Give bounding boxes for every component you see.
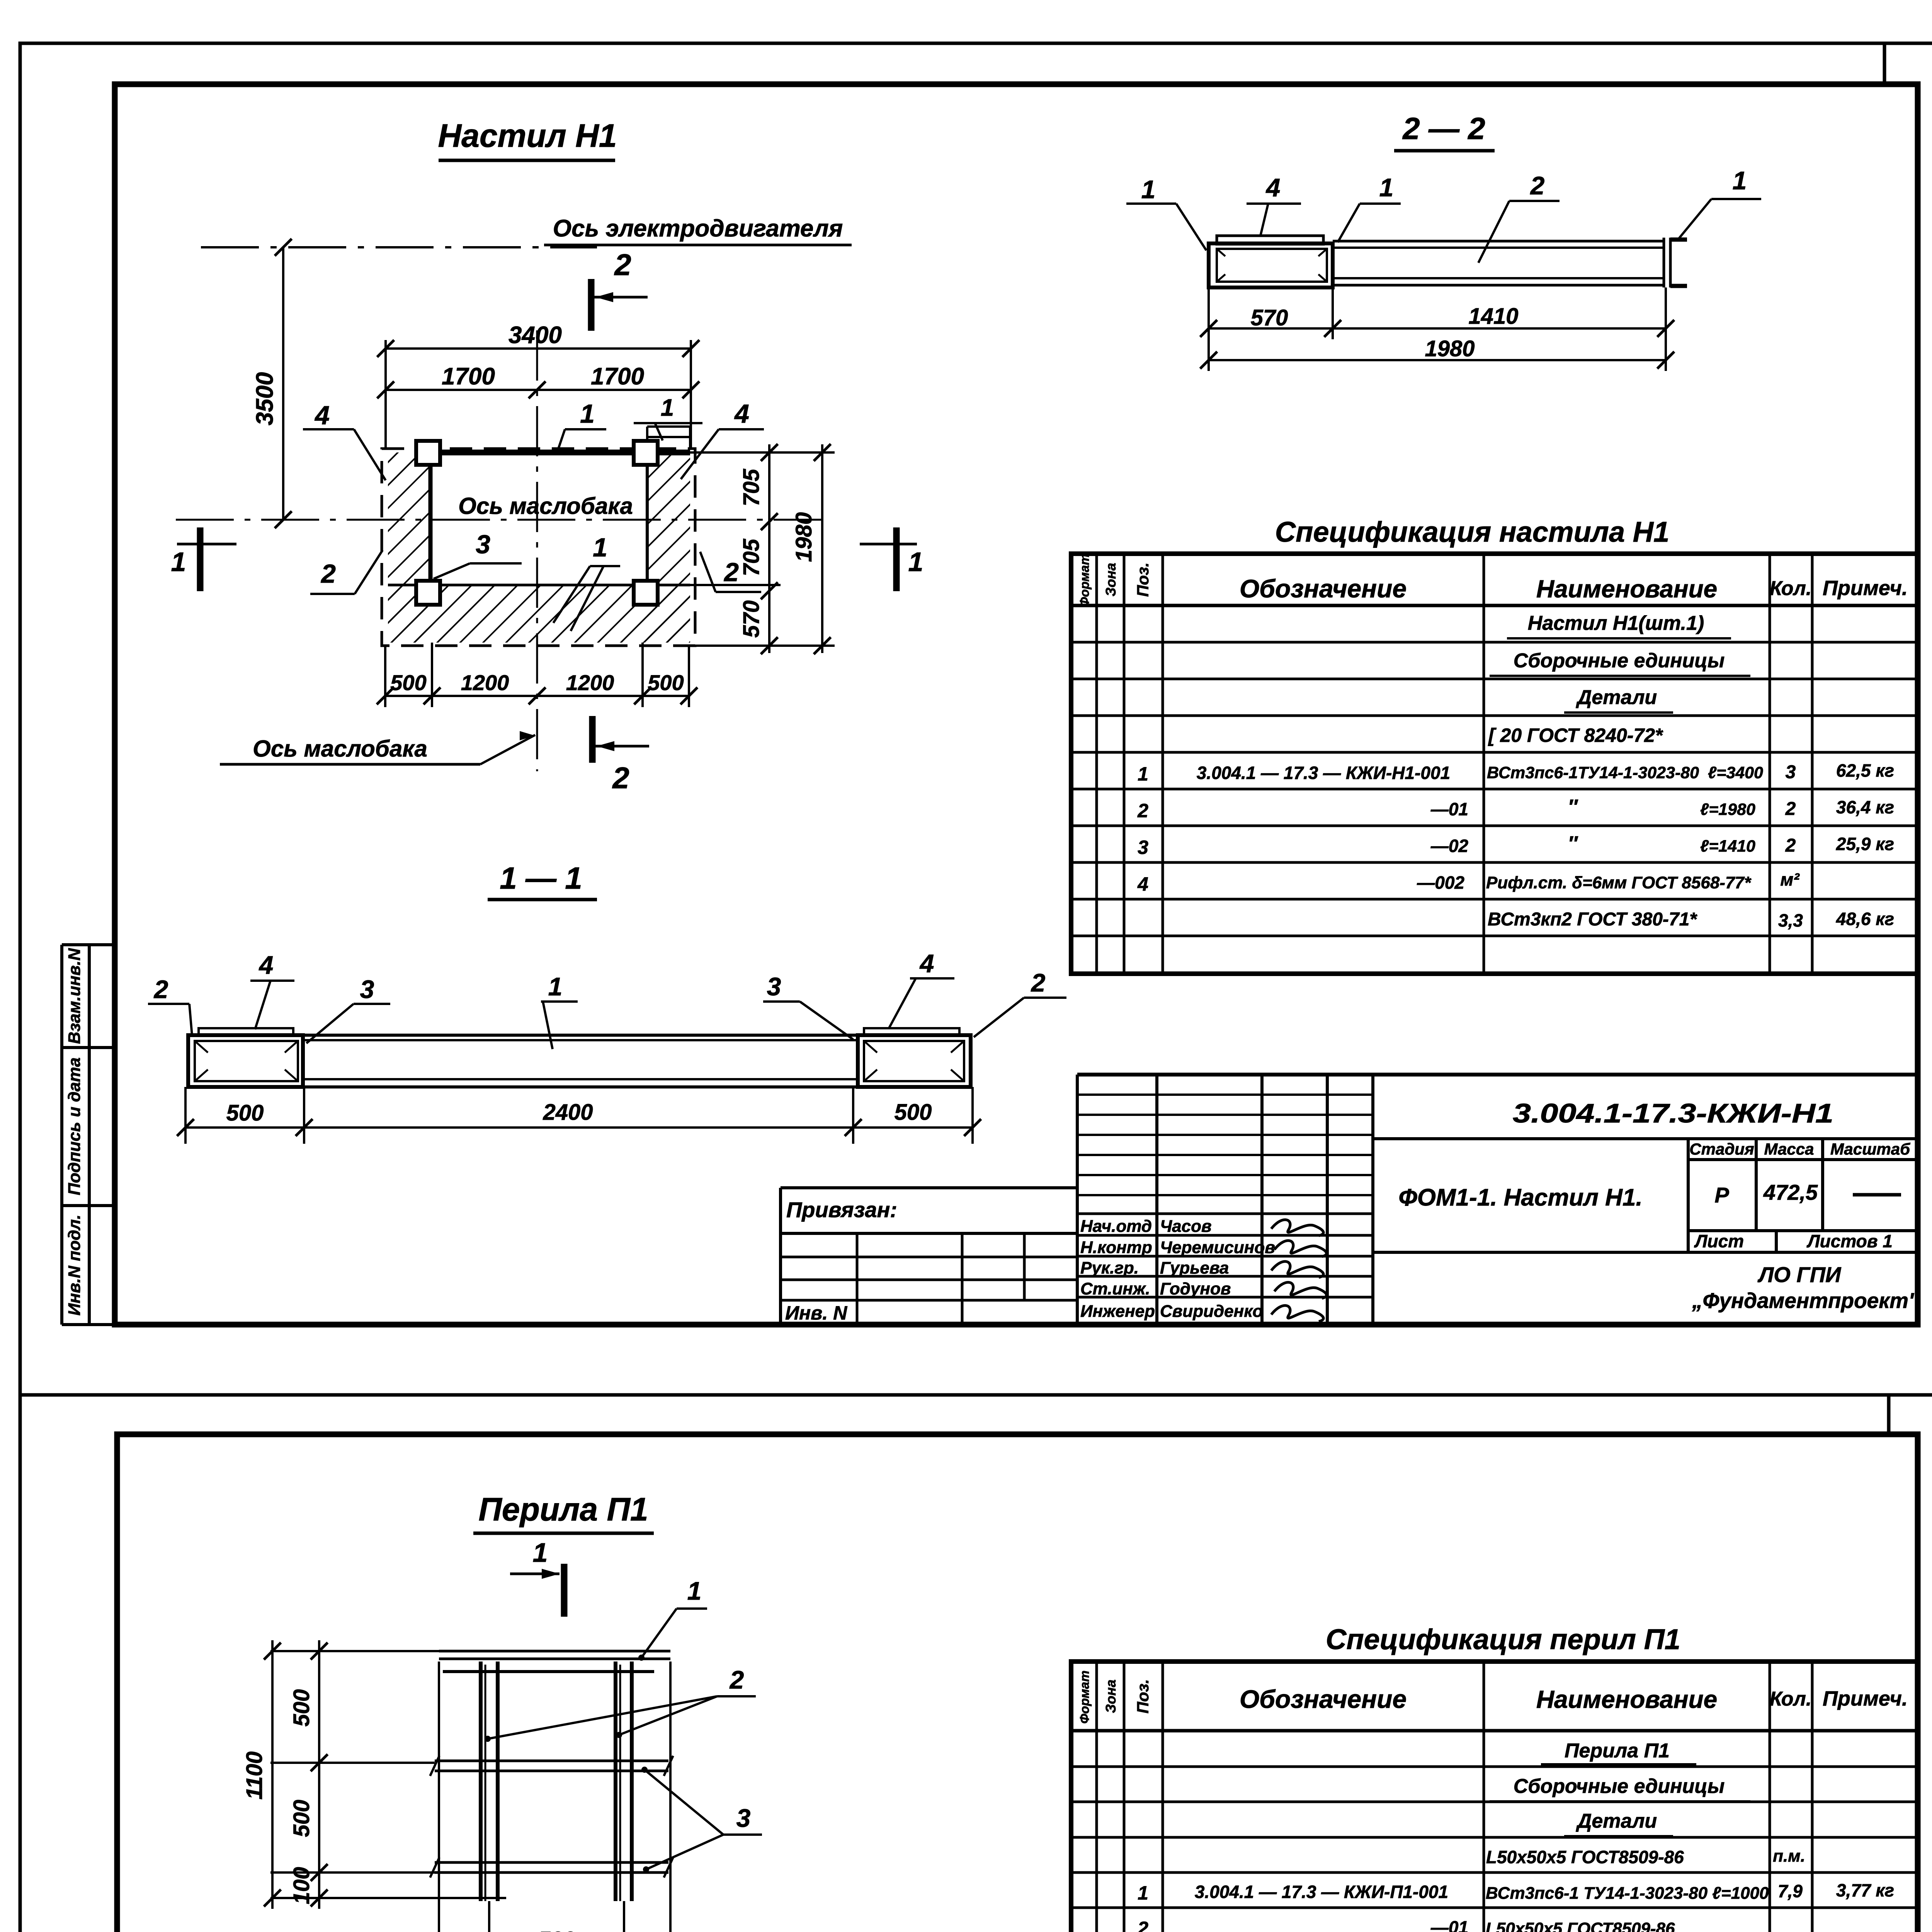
svg-text:Спецификация настила Н1: Спецификация настила Н1	[1275, 516, 1670, 548]
bottom dim extensions	[384, 646, 386, 707]
svg-text:62,5 кг: 62,5 кг	[1836, 760, 1894, 781]
svg-text:500: 500	[538, 1927, 575, 1932]
dim chain 705 705 570	[768, 444, 770, 653]
railing dim 1100	[271, 1640, 274, 1909]
svg-text:Масштаб: Масштаб	[1830, 1140, 1910, 1158]
svg-text:1: 1	[580, 399, 595, 429]
1-1 right channel outer	[858, 1035, 971, 1087]
svg-text:2: 2	[612, 761, 629, 795]
1-1 channel corner chamfers	[195, 1041, 208, 1053]
1-1 right plate pos.4	[864, 1028, 959, 1035]
svg-text:Наименование: Наименование	[1536, 1685, 1717, 1713]
svg-text:Лист: Лист	[1694, 1231, 1744, 1251]
svg-text:2: 2	[1031, 968, 1046, 997]
spec table 2 grid	[1071, 1662, 1918, 1932]
svg-text:Ось маслобака: Ось маслобака	[458, 493, 633, 519]
svg-text:Инв.N подл.: Инв.N подл.	[65, 1214, 84, 1316]
svg-text:Привязан:: Привязан:	[786, 1197, 897, 1222]
left channel edge (pos.3)	[429, 452, 433, 585]
svg-text:1: 1	[1138, 763, 1148, 785]
svg-text:705: 705	[739, 469, 764, 507]
svg-text:7,9: 7,9	[1778, 1881, 1803, 1901]
svg-text:2: 2	[1137, 800, 1148, 821]
svg-text:2: 2	[1785, 799, 1796, 819]
svg-text:1: 1	[1379, 173, 1394, 202]
svg-text:3,77 кг: 3,77 кг	[1836, 1880, 1894, 1900]
svg-text:ℓ=1410: ℓ=1410	[1700, 837, 1755, 855]
svg-text:Часов: Часов	[1160, 1217, 1212, 1236]
right dim extensions	[690, 451, 835, 454]
svg-text:1: 1	[593, 533, 607, 562]
1-1 dimensions	[184, 1087, 187, 1144]
1-1 beam bottom lines	[303, 1078, 858, 1080]
svg-text:2400: 2400	[543, 1100, 593, 1125]
svg-text:—02: —02	[1430, 836, 1469, 856]
svg-text:ВСт3кп2 ГОСТ 380-71*: ВСт3кп2 ГОСТ 380-71*	[1488, 909, 1697, 930]
svg-text:25,9 кг: 25,9 кг	[1836, 834, 1894, 854]
svg-text:L50х50х5 ГОСТ8509-86: L50х50х5 ГОСТ8509-86	[1486, 1919, 1675, 1932]
svg-text:2: 2	[1530, 171, 1545, 200]
svg-text:ЛО ГПИ: ЛО ГПИ	[1757, 1262, 1842, 1287]
svg-text:1200: 1200	[461, 670, 509, 695]
section mark 1 left	[197, 527, 204, 591]
svg-text:м²: м²	[1780, 869, 1800, 889]
1-1 left channel inner	[195, 1041, 298, 1081]
svg-text:1 — 1: 1 — 1	[500, 861, 582, 895]
1-1 left plate pos.4	[199, 1028, 293, 1035]
svg-text:1: 1	[661, 395, 674, 421]
svg-text:Рук.гр.: Рук.гр.	[1080, 1259, 1139, 1277]
svg-text:1200: 1200	[566, 670, 614, 695]
title block 1 big box	[1373, 1137, 1918, 1140]
svg-text:2: 2	[153, 975, 168, 1003]
title block 1 signatures	[1271, 1220, 1323, 1236]
svg-text:Ст.инж.: Ст.инж.	[1080, 1279, 1150, 1298]
sheet 1 corner box line	[1883, 43, 1886, 84]
railing bottom dim 1000	[438, 1662, 440, 1932]
svg-text:500: 500	[895, 1100, 932, 1125]
2-2 right end cap	[1663, 238, 1665, 287]
svg-text:3400: 3400	[509, 322, 562, 349]
svg-text:Поз.: Поз.	[1134, 1679, 1152, 1714]
svg-text:Инженер: Инженер	[1080, 1302, 1155, 1321]
svg-text:1: 1	[908, 547, 923, 577]
railing middle rail pos.3	[435, 1760, 668, 1762]
svg-text:ФОМ1-1. Настил Н1.: ФОМ1-1. Настил Н1.	[1398, 1184, 1642, 1211]
svg-text:3: 3	[1138, 837, 1148, 858]
svg-text:1980: 1980	[791, 512, 816, 562]
bottom band top edge	[388, 584, 690, 587]
sheet 1 inner frame	[115, 84, 1918, 1325]
svg-text:2: 2	[1785, 835, 1796, 856]
svg-text:Инв. N: Инв. N	[785, 1302, 847, 1324]
svg-text:—002: —002	[1417, 872, 1464, 893]
svg-text:Взам.инв.N: Взам.инв.N	[65, 948, 84, 1044]
svg-text:Настил Н1(шт.1): Настил Н1(шт.1)	[1528, 612, 1704, 634]
railing top rail pos.1	[439, 1650, 670, 1653]
svg-text:Годунов: Годунов	[1160, 1279, 1231, 1298]
title block 1 privyazan box	[781, 1186, 1077, 1189]
svg-text:Примеч.: Примеч.	[1823, 1687, 1908, 1710]
svg-text:500: 500	[289, 1800, 314, 1837]
hatched bottom band	[388, 585, 690, 643]
section mark 2 top	[588, 279, 595, 331]
svg-text:Н.контр: Н.контр	[1080, 1238, 1152, 1257]
svg-text:Нач.отд: Нач.отд	[1080, 1217, 1152, 1236]
svg-text:Спецификация перил П1: Спецификация перил П1	[1326, 1623, 1680, 1655]
svg-text:—01: —01	[1430, 799, 1468, 819]
svg-text:Масса: Масса	[1764, 1140, 1814, 1158]
svg-text:п.м.: п.м.	[1773, 1847, 1805, 1866]
svg-text:Гурьева: Гурьева	[1160, 1259, 1229, 1277]
2-2 plate pos.4	[1217, 236, 1323, 244]
svg-text:Свириденко: Свириденко	[1160, 1302, 1263, 1321]
svg-text:570: 570	[1251, 305, 1288, 330]
title block 1 signature table	[1076, 1075, 1079, 1325]
svg-text:4: 4	[1137, 873, 1148, 895]
svg-text:ВСт3пс6-1ТУ14-1-3023-80: ВСт3пс6-1ТУ14-1-3023-80	[1487, 764, 1699, 782]
svg-text:1: 1	[687, 1577, 702, 1605]
dimension 3400	[384, 340, 387, 449]
svg-text:Формат: Формат	[1077, 1670, 1092, 1724]
svg-text:500: 500	[390, 670, 426, 695]
svg-text:1: 1	[1138, 1882, 1148, 1904]
svg-text:36,4 кг: 36,4 кг	[1836, 797, 1894, 817]
railing left post pos.2	[479, 1662, 483, 1901]
svg-text:1: 1	[548, 972, 563, 1001]
svg-text:Ось электродвигателя: Ось электродвигателя	[553, 215, 843, 242]
svg-text:Ось маслобака: Ось маслобака	[253, 736, 427, 762]
svg-text:3: 3	[360, 975, 374, 1003]
svg-text:3.004.1-17.3-КЖИ-Н1: 3.004.1-17.3-КЖИ-Н1	[1513, 1098, 1833, 1128]
sheet 2 corner box line	[1887, 1395, 1891, 1434]
svg-text:100: 100	[289, 1867, 314, 1905]
svg-text:2: 2	[1137, 1918, 1148, 1932]
svg-text:Кол.: Кол.	[1770, 1688, 1812, 1710]
svg-text:3: 3	[736, 1804, 751, 1832]
2-2 channel inner	[1217, 249, 1327, 282]
svg-text:472,5: 472,5	[1763, 1180, 1818, 1204]
svg-text:2 — 2: 2 — 2	[1402, 111, 1485, 146]
section mark 2 bottom	[589, 716, 596, 763]
2-2 channel outer	[1209, 243, 1333, 287]
svg-text:Формат: Формат	[1077, 554, 1092, 607]
svg-text:2: 2	[723, 558, 739, 587]
hatched left column	[388, 452, 430, 643]
deck plan dashed outline	[382, 449, 695, 646]
2-2 beam bottom lines	[1333, 277, 1664, 279]
svg-text:705: 705	[739, 539, 764, 577]
sheet separator line	[20, 1393, 1932, 1397]
svg-text:Подпись и дата: Подпись и дата	[65, 1058, 84, 1196]
svg-text:ℓ=1980: ℓ=1980	[1700, 800, 1755, 819]
svg-text:2: 2	[320, 559, 336, 588]
svg-text:3: 3	[476, 530, 490, 559]
railing left dim extensions	[270, 1650, 439, 1652]
2-2 dimensions	[1207, 287, 1210, 371]
svg-text:1980: 1980	[1425, 336, 1475, 361]
oil tank axis (dash-dot)	[176, 519, 823, 521]
railing right post pos.2	[614, 1662, 617, 1901]
svg-text:Поз.: Поз.	[1134, 563, 1152, 597]
svg-text:3500: 3500	[252, 372, 278, 425]
1-1 right channel inner	[864, 1041, 964, 1081]
svg-text:1: 1	[533, 1537, 548, 1568]
railing dim chain 500/500/100	[318, 1640, 320, 1909]
svg-text:500: 500	[226, 1100, 264, 1126]
2-2 beam top lines	[1333, 240, 1664, 243]
svg-text:4: 4	[734, 399, 749, 429]
svg-text:[ 20 ГОСТ 8240-72*: [ 20 ГОСТ 8240-72*	[1488, 724, 1663, 746]
svg-text:Р: Р	[1714, 1183, 1729, 1207]
svg-text:Обозначение: Обозначение	[1240, 574, 1406, 603]
svg-text:4: 4	[259, 951, 274, 979]
1-1 beam top lines	[303, 1034, 858, 1037]
dimension 3500 vertical	[282, 247, 284, 520]
svg-text:1100: 1100	[242, 1752, 267, 1800]
svg-text:Настил Н1: Настил Н1	[438, 117, 617, 154]
svg-text:1700: 1700	[442, 363, 495, 390]
dim 1980	[821, 444, 823, 653]
deck top-right edge strip	[647, 425, 690, 428]
section mark 1 right	[893, 527, 900, 591]
1-1 left channel outer	[188, 1035, 303, 1087]
svg-text:570: 570	[739, 600, 764, 638]
bolt plate squares	[416, 441, 440, 465]
svg-text:—01: —01	[1430, 1917, 1468, 1932]
svg-text:Зона: Зона	[1103, 563, 1119, 597]
axis line (motor axis, dash-dot)	[201, 246, 597, 248]
svg-text:500: 500	[289, 1689, 314, 1727]
vertical centre axis (dash-dot)	[536, 330, 538, 771]
svg-text:Листов 1: Листов 1	[1806, 1231, 1893, 1251]
svg-text:1: 1	[1733, 166, 1747, 195]
svg-text:3: 3	[767, 972, 781, 1001]
svg-text:Перила П1: Перила П1	[1565, 1740, 1670, 1762]
svg-text:Сборочные единицы: Сборочные единицы	[1514, 1775, 1725, 1798]
svg-text:2: 2	[729, 1665, 744, 1694]
svg-text:Зона: Зона	[1103, 1680, 1119, 1713]
svg-text:Кол.: Кол.	[1770, 577, 1812, 600]
hatched right column	[647, 452, 690, 643]
svg-text:Черемисинов: Черемисинов	[1160, 1238, 1275, 1257]
svg-text:1: 1	[171, 547, 186, 577]
svg-text:48,6 кг: 48,6 кг	[1836, 909, 1894, 929]
svg-text:Детали: Детали	[1576, 686, 1657, 709]
svg-text:ℓ=3400: ℓ=3400	[1708, 764, 1763, 782]
svg-text:″: ″	[1568, 796, 1578, 818]
svg-text:Наименование: Наименование	[1536, 575, 1717, 603]
bottom dim chain	[385, 695, 689, 697]
svg-text:1700: 1700	[591, 363, 644, 390]
svg-text:1: 1	[1141, 175, 1156, 204]
svg-text:1410: 1410	[1468, 304, 1518, 329]
svg-text:Стадия: Стадия	[1689, 1140, 1754, 1158]
top chord channel pos.1 (thick)	[425, 450, 690, 456]
sheet 2 inner frame	[117, 1434, 1918, 1932]
svg-text:L50х50х5 ГОСТ8509-86: L50х50х5 ГОСТ8509-86	[1486, 1847, 1684, 1867]
svg-text:„Фундаментпроект": „Фундаментпроект"	[1692, 1288, 1919, 1313]
svg-text:Перила П1: Перила П1	[478, 1491, 648, 1527]
svg-text:Детали: Детали	[1576, 1810, 1657, 1832]
2-2 channel corner chamfers	[1217, 249, 1225, 256]
svg-text:Сборочные единицы: Сборочные единицы	[1514, 650, 1725, 672]
svg-text:Примеч.: Примеч.	[1823, 577, 1908, 600]
svg-text:2: 2	[614, 248, 631, 282]
svg-text:3.004.1 — 17.3 — КЖИ-Н1-001: 3.004.1 — 17.3 — КЖИ-Н1-001	[1197, 763, 1450, 783]
railing bottom rail pos.3	[435, 1861, 668, 1864]
svg-text:3,3: 3,3	[1778, 910, 1803, 930]
svg-text:4: 4	[314, 401, 330, 430]
svg-text:ВСт3пс6-1 ТУ14-1-3023-80 ℓ=1: ВСт3пс6-1 ТУ14-1-3023-80 ℓ=1000	[1486, 1884, 1769, 1903]
svg-text:4: 4	[1265, 173, 1281, 202]
dimension 1700 + 1700	[386, 389, 691, 391]
svg-text:″: ″	[1568, 832, 1578, 855]
sheet 1 left sidebar stamp boxes	[62, 943, 115, 946]
svg-text:3: 3	[1786, 762, 1796, 782]
svg-text:3.004.1 — 17.3 — КЖИ-П1-001: 3.004.1 — 17.3 — КЖИ-П1-001	[1195, 1882, 1448, 1902]
svg-text:Обозначение: Обозначение	[1240, 1685, 1406, 1713]
svg-text:4: 4	[919, 949, 934, 978]
right channel edge	[646, 452, 649, 585]
railing bottom dim 500	[488, 1901, 490, 1932]
spec table 1 grid	[1071, 554, 1918, 974]
svg-text:Рифл.ст. δ=6мм ГОСТ 8568-77*: Рифл.ст. δ=6мм ГОСТ 8568-77*	[1486, 873, 1752, 892]
svg-text:500: 500	[648, 670, 684, 695]
